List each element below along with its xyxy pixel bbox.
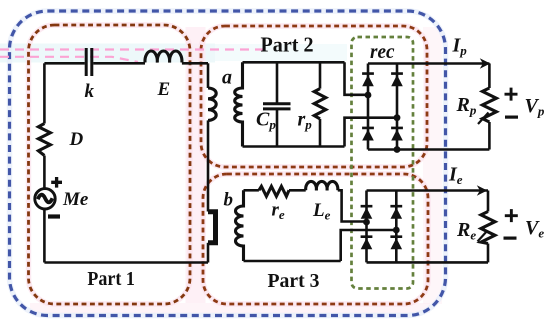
Part 1 dashed box (29, 25, 191, 304)
part3 loop bottom rail (244, 260, 341, 263)
diode D7 bottom bridge right upper (390, 205, 402, 219)
Part 1 dashed box halo (29, 25, 191, 304)
wire b primary to bottom (207, 243, 210, 263)
minus sign Vp (505, 116, 518, 119)
svg-text:E: E (157, 79, 171, 100)
outer blue dashed box (10, 11, 446, 316)
wire bottom bridge left branch (365, 191, 368, 263)
rec green dashed box (352, 37, 414, 289)
wire part1 right vertical top (207, 63, 210, 88)
wire bottom bridge bottom rail to load (367, 261, 489, 264)
node top bridge bottom right (394, 146, 401, 153)
diode D4 top bridge right lower (391, 127, 403, 141)
Part 3 dashed box halo (203, 174, 428, 304)
wire a primary to b primary (207, 120, 210, 211)
inductor Le (306, 181, 338, 190)
svg-text:Part 3: Part 3 (268, 270, 320, 292)
wire load Rp vertical bottom (488, 122, 491, 150)
wire part1 left vertical upper (43, 63, 46, 123)
plus sign Vp (505, 88, 518, 101)
wire part3 bottom to bridge jog up (341, 230, 397, 261)
resistor rp lead bottom (319, 119, 322, 147)
cyan artifact wash top-left (0, 44, 215, 63)
svg-text:Me: Me (62, 189, 89, 210)
diode D2 top bridge left lower (362, 127, 374, 141)
svg-text:rec: rec (370, 41, 395, 63)
wire top bridge top rail and output Ip (368, 62, 489, 65)
diode D8 bottom bridge right lower (390, 235, 402, 249)
wire part1 top left (44, 62, 84, 65)
wire bottom bridge top rail and output Ie (367, 189, 489, 192)
source Me circle (35, 189, 55, 209)
node bottom bridge right mid (393, 227, 400, 234)
svg-text:k: k (85, 81, 95, 102)
diode D1 top bridge left upper (362, 72, 374, 86)
wire D to source Me (43, 156, 46, 189)
Part 2 dashed box halo (201, 26, 427, 167)
resistor rp lead top (319, 62, 322, 88)
wire tank to rectifier top jog (345, 62, 369, 95)
node bottom bridge left mid (363, 219, 370, 226)
wire Me to bottom (43, 209, 46, 263)
slash mark Rp (478, 113, 489, 125)
slash mark Re (478, 231, 488, 242)
capacitor Cp plates (263, 104, 291, 109)
node top bridge right mid (394, 114, 401, 121)
wire load Re vertical top (487, 191, 490, 212)
wire load Rp vertical top (488, 64, 491, 89)
Part 2 dashed box (201, 26, 427, 167)
diode D5 bottom bridge left upper (361, 205, 373, 219)
arrowhead Ip (480, 58, 491, 69)
svg-text:Part 1: Part 1 (87, 268, 134, 290)
wire Le to bridge jog down (338, 190, 367, 221)
source plus sign (51, 177, 62, 188)
diode D6 bottom bridge left lower (361, 235, 373, 249)
wire tank bottom rail (243, 145, 345, 148)
resistor Rp (482, 88, 496, 122)
wire part1 bottom (44, 261, 208, 264)
svg-text:Part 2: Part 2 (261, 33, 314, 57)
pink artifact bands (186, 27, 206, 303)
transformer a primary coil (208, 88, 216, 120)
resistor re (259, 186, 289, 196)
arrowhead Ie (477, 185, 488, 196)
capacitor Cp leads (276, 62, 279, 146)
outer blue dashed box halo (10, 11, 446, 316)
wire load Re vertical bottom (487, 244, 490, 263)
wire tank to rectifier bottom jog (345, 118, 398, 147)
transformer b primary bar (208, 212, 216, 243)
node top bridge left mid (365, 92, 372, 99)
plus sign Ve (505, 209, 518, 222)
wire top bridge left branch (367, 64, 370, 150)
resistor Re (481, 212, 495, 244)
wire bottom bridge right branch (395, 191, 398, 263)
source Me sine (38, 195, 53, 203)
pink dashed artifact line upper (0, 48, 268, 50)
wire top bridge bottom rail to load (368, 148, 489, 151)
transformer b secondary coil (236, 190, 244, 261)
resistor rp (314, 89, 326, 119)
wire tank top rail (243, 61, 345, 64)
wire cap k to inductor E (93, 62, 145, 65)
svg-text:a: a (222, 67, 232, 89)
wire top bridge right branch (396, 64, 399, 150)
inductor E (145, 51, 182, 62)
capacitor k plates (86, 48, 92, 76)
wire E to corner (182, 62, 208, 65)
pink dashed artifact line lower (0, 57, 138, 62)
wire re to Le (289, 189, 306, 192)
minus sign Ve (504, 237, 517, 240)
svg-text:D: D (69, 129, 84, 150)
svg-text:b: b (224, 190, 234, 211)
Part 3 dashed box (203, 174, 428, 304)
resistor D (38, 124, 50, 156)
source minus sign (48, 214, 60, 218)
transformer a secondary coil (235, 62, 243, 146)
diode D3 top bridge right upper (391, 72, 403, 86)
part3 loop top rail left (244, 189, 259, 192)
